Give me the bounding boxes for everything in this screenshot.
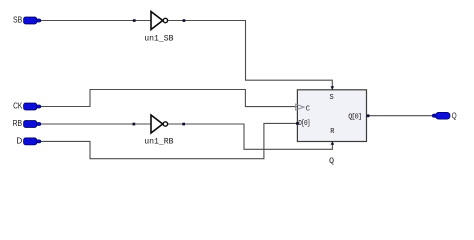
pin R arrowhead: [331, 141, 335, 145]
svg-text:un1_SB: un1_SB: [144, 34, 173, 44]
svg-text:Q[0]: Q[0]: [348, 113, 361, 121]
pin D[0] connection dot: [296, 122, 299, 125]
input port RB: [24, 121, 41, 128]
svg-text:un1_RB: un1_RB: [144, 136, 173, 146]
svg-text:D[0]: D[0]: [298, 120, 310, 128]
junction dot un1_SB output: [183, 19, 186, 22]
svg-text:D: D: [16, 136, 22, 145]
flip-flop U1 body: [297, 90, 366, 142]
wire CK net: port to C pin: [41, 90, 297, 107]
svg-text:Q: Q: [329, 156, 334, 166]
inverter un1_SB: [151, 12, 168, 30]
wire Q net: flip-flop output to port Q: [367, 115, 433, 117]
svg-text:RB: RB: [13, 119, 23, 128]
wire SB net: port to inverter input: [41, 20, 151, 22]
svg-text:CK: CK: [13, 102, 23, 111]
wire D net: port to D[0] pin: [41, 123, 297, 158]
junction dot un1_RB output: [182, 123, 185, 126]
output port Q: [432, 112, 450, 119]
junction dot un1_SB input: [133, 19, 136, 22]
wire SB net: inverter output to S pin of flip-flop: [168, 21, 332, 88]
input port SB: [24, 17, 41, 24]
wire RB net: inverter output to R pin of flip-flop: [168, 124, 333, 149]
wire RB net: port to inverter input: [41, 123, 151, 125]
junction dot un1_RB input: [133, 123, 136, 126]
input port D: [24, 138, 41, 145]
svg-text:Q: Q: [452, 112, 457, 121]
svg-text:SB: SB: [13, 16, 23, 25]
pin Q[0] connection dot: [367, 114, 370, 117]
pin S arrowhead: [331, 86, 335, 90]
input port CK: [24, 103, 41, 110]
inverter un1_RB: [151, 115, 168, 133]
pin C clock triangle: [296, 104, 304, 110]
